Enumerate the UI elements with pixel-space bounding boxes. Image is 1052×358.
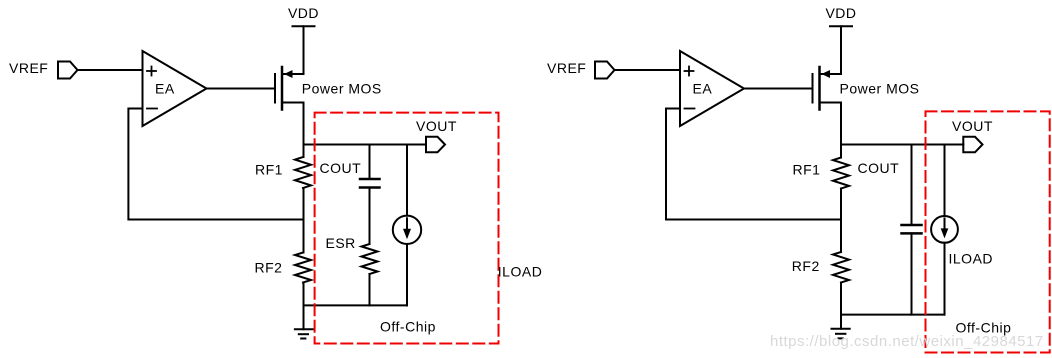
wire VOUT node to COUT <box>369 145 371 180</box>
svg-text:RF1: RF1 <box>793 162 821 178</box>
svg-text:ILOAD: ILOAD <box>498 264 543 280</box>
wire ILOAD to bottom rail (right) <box>944 243 946 315</box>
power VDD (left) <box>293 25 315 27</box>
port VREF (left) <box>58 62 78 79</box>
resistor RF1 (left) <box>295 157 311 188</box>
off-chip boundary (right) <box>926 111 1050 352</box>
wire source to VDD <box>303 26 305 74</box>
capacitor COUT (left) <box>360 179 380 188</box>
svg-text:Off-Chip: Off-Chip <box>380 319 436 335</box>
wire drain down to VOUT node (right) <box>840 103 842 158</box>
ground (left) <box>295 329 313 338</box>
wire RF2 to ground <box>303 283 305 330</box>
resistor RF2 (right) <box>833 252 849 283</box>
wire VREF to op-amp + input <box>78 69 143 71</box>
transistor Power MOS (left) <box>275 67 304 110</box>
capacitor COUT (right) <box>902 225 922 233</box>
wire op-amp output to gate <box>207 88 276 90</box>
svg-text:COUT: COUT <box>858 160 900 176</box>
wire RF1 to feedback node <box>303 188 305 253</box>
wire source to VDD (right) <box>840 26 842 74</box>
svg-text:VREF: VREF <box>547 60 586 76</box>
svg-text:EA: EA <box>155 81 175 97</box>
wire drain down to VOUT node <box>303 103 305 158</box>
svg-text:VOUT: VOUT <box>416 118 457 134</box>
wire VREF to op-amp + input (right) <box>615 69 681 71</box>
resistor ESR (left) <box>362 244 378 274</box>
resistor RF2 (left) <box>295 253 311 283</box>
op-amp EA (right) <box>680 51 744 126</box>
wire feedback to op-amp - input (right) <box>666 109 841 220</box>
svg-text:Power MOS: Power MOS <box>840 81 920 97</box>
svg-text:https://blog.csdn.net/weixin_4: https://blog.csdn.net/weixin_42984517 <box>770 333 1044 350</box>
svg-text:ESR: ESR <box>326 235 356 251</box>
off-chip boundary (left) <box>315 113 499 344</box>
svg-text:VREF: VREF <box>9 60 48 76</box>
svg-text:RF2: RF2 <box>255 260 283 276</box>
wire COUT to bottom rail (right) <box>911 233 913 314</box>
wire VOUT node to COUT (right) <box>911 145 913 226</box>
wire bottom rail (right) <box>841 314 945 316</box>
wire ILOAD to bottom rail <box>406 244 408 305</box>
transistor Power MOS (right) <box>813 67 842 110</box>
wire VOUT rail <box>304 144 427 146</box>
power VDD (right) <box>830 25 852 27</box>
svg-text:Power MOS: Power MOS <box>302 81 382 97</box>
wire feedback to op-amp - input <box>128 109 303 220</box>
ground (right) <box>832 329 850 339</box>
resistor RF1 (right) <box>833 158 849 189</box>
wire VOUT node to ILOAD <box>406 145 408 216</box>
current source ILOAD (left) <box>393 216 421 244</box>
svg-text:EA: EA <box>693 81 713 97</box>
wire RF2 to ground (right) <box>840 283 842 329</box>
current source ILOAD (right) <box>931 216 958 243</box>
svg-text:RF2: RF2 <box>792 258 820 274</box>
svg-text:VDD: VDD <box>825 5 856 21</box>
wire VOUT rail (right) <box>841 144 963 146</box>
svg-text:ILOAD: ILOAD <box>949 251 994 267</box>
wire RF1 to feedback node (right) <box>840 189 842 253</box>
port VOUT (left) <box>426 137 445 153</box>
port VREF (right) <box>595 62 615 79</box>
op-amp EA (left) <box>143 51 207 126</box>
wire bottom rail (left) <box>304 304 408 306</box>
wire VOUT node to ILOAD (right) <box>944 145 946 217</box>
port VOUT (right) <box>963 137 982 153</box>
svg-text:VDD: VDD <box>288 5 319 21</box>
wire ESR to bottom rail <box>369 274 371 305</box>
svg-text:VOUT: VOUT <box>952 118 993 134</box>
svg-text:RF1: RF1 <box>255 162 283 178</box>
wire COUT to ESR <box>369 188 371 245</box>
svg-text:COUT: COUT <box>320 160 362 176</box>
wire op-amp output to gate (right) <box>744 88 813 90</box>
